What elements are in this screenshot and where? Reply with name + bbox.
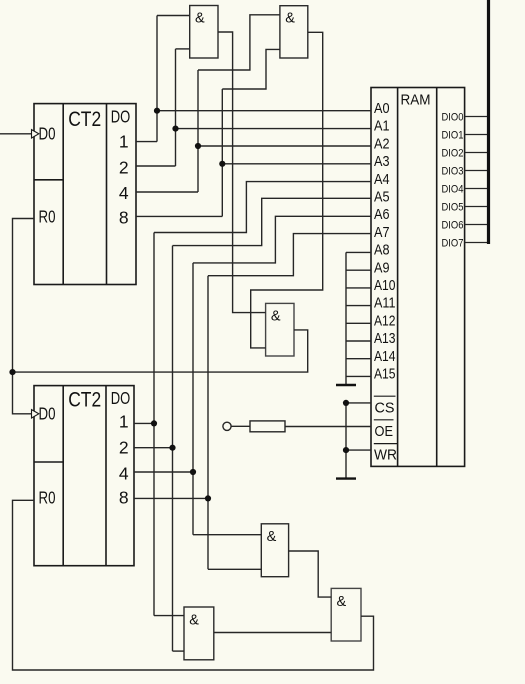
net A3: counter1 out8 to RAM A3 and gate U2 input 2: [136, 49, 371, 216]
svg-text:D0: D0: [39, 124, 56, 144]
and-gate U4 (lower middle &): [261, 524, 288, 577]
wire U1 input2: [176, 48, 190, 50]
wire riser/faller x154: [153, 233, 155, 616]
counter CT2 #1 (top left): [34, 104, 136, 285]
net CS/WR tie-off: [346, 403, 371, 479]
net A8-A15 tie-off: [346, 252, 371, 385]
wire OE circle to resistor: [231, 425, 250, 427]
net U2 output to U3 input 2: [251, 32, 323, 348]
junction dot CS: [343, 400, 349, 406]
junction dot A3: [219, 161, 225, 167]
svg-text:DIO5: DIO5: [442, 202, 464, 214]
wire A12 stub: [346, 322, 371, 324]
net A2: counter1 out4 to RAM A2 and gate U2 input 1: [136, 15, 371, 192]
and-gate U3 (middle &): [266, 303, 294, 356]
wire A13 stub: [346, 340, 371, 342]
wire counter1 out2: [136, 165, 176, 167]
wire WR stub: [346, 449, 371, 451]
net A1: counter1 out2 to RAM A1 and gate U1 input 2: [136, 49, 371, 166]
svg-text:4: 4: [119, 183, 129, 203]
svg-text:&: &: [271, 308, 281, 324]
svg-text:A10: A10: [374, 277, 396, 294]
svg-text:1: 1: [119, 412, 129, 432]
wire U5 output loop: [13, 500, 374, 670]
wire CS/WR rail: [345, 403, 347, 479]
svg-text:&: &: [189, 613, 199, 629]
wire U4 input1: [193, 534, 261, 536]
terminal circle OE input: [223, 422, 231, 430]
wire A15 stub: [346, 375, 371, 377]
wire U2 output: [251, 32, 323, 348]
and-gate U6 (bottom left &): [184, 607, 214, 660]
terminal bar A8-A15 rail: [336, 384, 356, 386]
svg-text:DIO4: DIO4: [442, 184, 464, 196]
wire U3 output: [13, 330, 308, 372]
svg-text:A7: A7: [374, 224, 390, 241]
svg-text:CT2: CT2: [68, 387, 101, 411]
RAM U3: [371, 88, 465, 467]
wire counter2 out4: [134, 471, 193, 473]
wire A8 stub: [346, 251, 371, 253]
resistor R1 (OE series element): [250, 421, 285, 432]
wire counter1 out8: [136, 215, 222, 217]
svg-text:1: 1: [119, 131, 129, 151]
net U4 output to U5 input 1: [289, 551, 332, 597]
DIO0-DIO7 stub wires to data bus: [465, 117, 488, 243]
wire A5 zigzag: [173, 198, 372, 245]
junction dot A1: [172, 126, 178, 132]
svg-text:A8: A8: [374, 242, 390, 259]
wire riser/faller x172.5: [172, 246, 174, 651]
junction dot counter2 out2: [169, 445, 175, 451]
svg-text:A0: A0: [374, 100, 390, 117]
svg-text:A5: A5: [374, 189, 390, 206]
wire A11 stub: [346, 305, 371, 307]
junction dot WR: [343, 447, 349, 453]
wire U1 input1: [157, 15, 190, 17]
and-gate U2 (top right &): [280, 6, 308, 58]
svg-text:4: 4: [119, 463, 129, 483]
wire counter2 out8: [134, 497, 208, 499]
svg-text:A1: A1: [374, 118, 390, 135]
net U5 output: reset counter2: [13, 500, 374, 670]
svg-text:&: &: [285, 11, 295, 27]
svg-text:DO: DO: [111, 107, 131, 127]
wire riser x175.5: [175, 49, 177, 166]
wire U6 input1: [154, 615, 184, 617]
svg-text:DIO3: DIO3: [442, 166, 464, 178]
svg-text:A2: A2: [374, 135, 390, 152]
wire U4 input2: [208, 568, 261, 570]
svg-text:R0: R0: [39, 488, 56, 508]
svg-text:A6: A6: [374, 206, 390, 223]
svg-text:A13: A13: [374, 330, 396, 347]
wire A8-A15 common rail: [345, 252, 347, 385]
svg-text:DIO6: DIO6: [442, 220, 464, 232]
svg-text:A15: A15: [374, 366, 396, 383]
junction dot A0: [154, 108, 160, 114]
wire riser/faller x193: [192, 263, 194, 535]
and-gate U1 (top left &): [190, 6, 218, 59]
terminal bar CS/WR rail: [336, 477, 356, 479]
svg-text:2: 2: [119, 158, 129, 178]
wire to counter2 D0: [13, 372, 32, 414]
svg-text:RAM: RAM: [401, 92, 431, 108]
net A0: counter1 out1 to RAM A0 and gate U1 input 1: [136, 16, 371, 142]
wire jog to U2 input2: [222, 49, 280, 89]
wire A7 zigzag: [208, 234, 371, 276]
net A7: counter2 out8 to RAM A7 and gate U4 input 2: [134, 234, 371, 570]
net A5: counter2 out2 to RAM A5 and gate U6 input 2: [134, 198, 371, 651]
wire A10 stub: [346, 287, 371, 289]
net U1 output to U3 input 1: [218, 32, 266, 313]
svg-text:DO: DO: [111, 388, 131, 408]
wire A14 stub: [346, 358, 371, 360]
counter CT2 #2 (bottom left): [34, 386, 134, 566]
net U3 output: reset counter1 / clock counter2: [13, 219, 308, 414]
junction dot reset net: [9, 369, 15, 375]
RAM data pin labels DIO0-DIO7: [442, 112, 464, 250]
counter1 D0 dynamic input triangle: [32, 130, 39, 138]
svg-text:CS: CS: [375, 400, 395, 417]
wire counter2 out2: [134, 447, 173, 449]
svg-text:8: 8: [119, 208, 129, 228]
data bus bar: [487, 0, 490, 244]
wire A2 horizontal: [198, 145, 371, 147]
svg-text:DIO7: DIO7: [442, 238, 464, 250]
svg-text:WR: WR: [374, 447, 397, 464]
svg-text:A3: A3: [374, 153, 390, 170]
svg-text:A9: A9: [374, 259, 390, 276]
wire to counter1 R0: [13, 219, 35, 373]
wire U4 output: [289, 551, 332, 597]
svg-text:DIO1: DIO1: [442, 130, 464, 142]
wire counter2 out1: [134, 422, 154, 424]
wire A4 zigzag: [154, 182, 371, 233]
wire U6 output: [214, 632, 331, 634]
svg-text:CT2: CT2: [68, 107, 101, 131]
svg-text:&: &: [195, 11, 205, 27]
wire resistor to RAM OE: [285, 426, 371, 428]
wire jog to U2: [198, 15, 280, 70]
wire CS stub: [346, 402, 371, 404]
counter2 D0 dynamic input triangle: [32, 410, 39, 418]
svg-text:A12: A12: [374, 312, 396, 329]
wire riser x198: [197, 70, 199, 192]
wire A6 zigzag: [193, 216, 371, 263]
junction dot counter2 out4: [190, 469, 196, 475]
wire counter1 out1: [136, 141, 157, 143]
svg-text:R0: R0: [39, 207, 56, 227]
wire riser/faller x208: [207, 276, 209, 570]
RAM pin labels A0-A15: [374, 100, 396, 383]
svg-text:A4: A4: [374, 171, 390, 188]
wire U1 output: [218, 32, 266, 313]
svg-text:&: &: [267, 529, 277, 545]
wire U6 input2: [173, 650, 185, 652]
svg-text:8: 8: [119, 487, 129, 507]
svg-text:2: 2: [119, 438, 129, 458]
junction dot counter2 out8: [205, 495, 211, 501]
svg-text:OE: OE: [375, 423, 394, 440]
svg-text:DIO0: DIO0: [442, 112, 464, 124]
svg-text:D0: D0: [39, 404, 56, 424]
wire A3 horizontal: [222, 163, 371, 165]
wire A0 horizontal: [157, 110, 371, 112]
net A6: counter2 out4 to RAM A6 and gate U4 input 1: [134, 216, 371, 534]
svg-text:&: &: [337, 594, 347, 610]
wire A9 stub: [346, 269, 371, 271]
and-gate U5 (bottom right &): [331, 588, 361, 641]
svg-text:DIO2: DIO2: [442, 148, 464, 160]
junction dot counter2 out1: [151, 420, 157, 426]
wire riser x157: [156, 16, 158, 142]
wire counter1 out4: [136, 191, 198, 193]
junction dot A2: [195, 143, 201, 149]
counter1 D0 input wire: [0, 133, 32, 135]
svg-text:A11: A11: [374, 295, 396, 312]
svg-text:A14: A14: [374, 348, 396, 365]
wire riser x222.3: [221, 89, 223, 216]
net A4: counter2 out1 to RAM A4 and gate U6 input 1: [134, 182, 371, 616]
wire A1 horizontal: [176, 128, 372, 130]
